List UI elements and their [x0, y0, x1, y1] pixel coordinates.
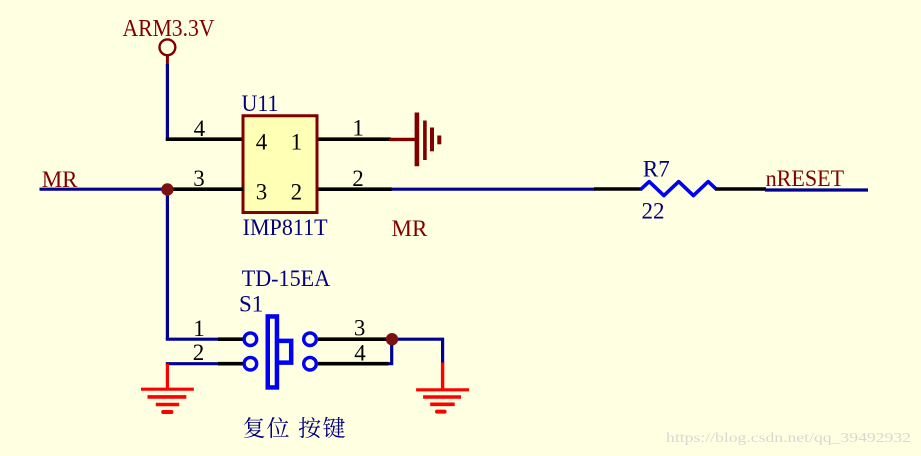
- resistor R7 pin 2 wire: [715, 187, 766, 191]
- svg-text:2: 2: [193, 340, 205, 365]
- svg-text:U11: U11: [242, 91, 279, 116]
- power ground symbol bar 4: [437, 136, 441, 145]
- S1 contact circle pin 2: [244, 357, 257, 370]
- caption reset button glyph an: [299, 417, 321, 438]
- left GND bar 1: [141, 388, 194, 391]
- power ground symbol bar 1: [415, 113, 420, 167]
- left GND bar 3: [156, 403, 179, 407]
- svg-text:4: 4: [354, 341, 366, 366]
- left GND stub: [166, 364, 169, 389]
- svg-text:TD-15EA: TD-15EA: [242, 266, 331, 291]
- svg-text:1: 1: [291, 130, 303, 155]
- wire junction to right ground: [392, 339, 443, 364]
- S1 button cap: [279, 341, 291, 363]
- svg-text:https://blog.csdn.net/qq_39492: https://blog.csdn.net/qq_39492932: [666, 430, 911, 445]
- caption reset button glyph jian: [323, 417, 345, 438]
- U11 pin 3 wire: [167, 187, 243, 191]
- S1 plunger bar: [268, 316, 277, 387]
- S1 contact circle pin 4: [304, 357, 317, 370]
- svg-text:3: 3: [256, 180, 268, 205]
- svg-text:R7: R7: [643, 157, 670, 182]
- right GND bar 3: [430, 402, 455, 406]
- right GND stub: [441, 363, 444, 390]
- resistor R7 pin 1 wire: [594, 187, 642, 191]
- wire resistor to nRESET: [765, 188, 868, 191]
- power ground symbol bar 3: [430, 128, 434, 152]
- svg-text:3: 3: [193, 166, 205, 191]
- right GND bar 4: [437, 410, 445, 414]
- S1 pin 4 wire: [318, 362, 389, 366]
- caption reset button glyph fu: [244, 417, 265, 438]
- left GND bar 4: [163, 410, 171, 414]
- wire S1 pin 2 to ground: [166, 362, 219, 365]
- svg-text:IMP811T: IMP811T: [243, 215, 328, 240]
- right GND bar 1: [416, 388, 469, 391]
- wire pin 2 to resistor: [391, 188, 595, 191]
- svg-text:ARM3.3V: ARM3.3V: [123, 15, 215, 42]
- caption reset button glyph wei: [267, 417, 289, 438]
- U11 pin 4 wire: [166, 137, 243, 141]
- wire to S1 pin 1: [166, 338, 219, 341]
- svg-text:nRESET: nRESET: [766, 166, 845, 191]
- right GND bar 2: [423, 395, 461, 399]
- svg-text:4: 4: [256, 130, 268, 155]
- S1 pin 2 wire: [218, 362, 243, 366]
- IC U11 body: [243, 116, 317, 213]
- wire ARM3.3V to U11 pin 4: [166, 64, 169, 141]
- svg-text:S1: S1: [239, 291, 263, 316]
- S1 pin 1 wire: [218, 337, 243, 341]
- power ground symbol bar 2: [423, 121, 427, 161]
- junction dot MR: [161, 183, 173, 195]
- svg-text:2: 2: [352, 166, 364, 191]
- svg-text:22: 22: [642, 199, 665, 224]
- wire pin 4 up to pin 3 net: [389, 339, 392, 364]
- S1 pin 3 wire: [318, 337, 389, 341]
- svg-text:1: 1: [193, 316, 205, 341]
- svg-text:2: 2: [291, 180, 303, 205]
- svg-text:MR: MR: [392, 216, 428, 241]
- U11 pin 1 wire: [319, 137, 392, 141]
- wire net MR horizontal: [40, 188, 168, 191]
- wire MR net down to switch: [166, 189, 169, 339]
- power port ARM3.3V stub: [166, 55, 169, 66]
- left GND bar 2: [148, 395, 187, 399]
- svg-text:4: 4: [194, 116, 206, 141]
- S1 contact circle pin 1: [244, 333, 257, 346]
- S1 contact circle pin 3: [304, 333, 317, 346]
- junction dot S1: [386, 333, 398, 345]
- power port ARM3.3V circle: [160, 39, 176, 55]
- resistor R7 zigzag: [642, 182, 716, 196]
- U11 pin 2 wire: [319, 187, 393, 191]
- wire pin 1 to power ground: [389, 138, 415, 141]
- svg-text:3: 3: [354, 316, 366, 341]
- svg-text:1: 1: [352, 116, 364, 141]
